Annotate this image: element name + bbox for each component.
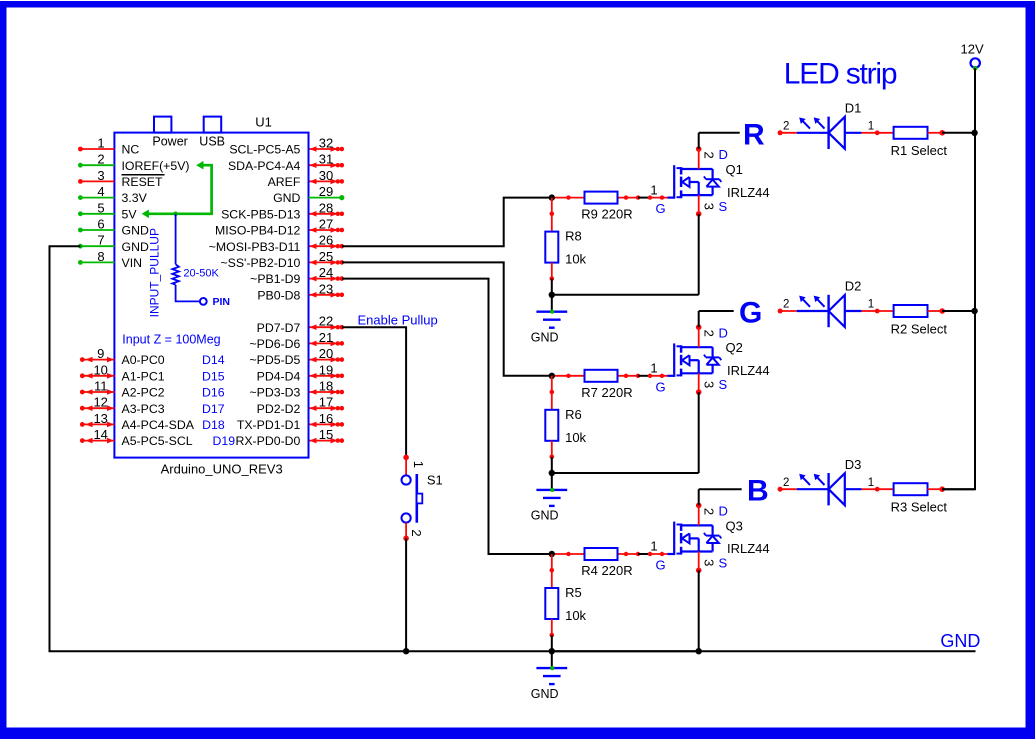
junction R4 R5 bbox=[549, 551, 555, 557]
transistor Q2 IRLZ44 bbox=[668, 375, 675, 377]
svg-text:1: 1 bbox=[868, 120, 874, 132]
svg-text:S: S bbox=[719, 377, 728, 392]
svg-text:1: 1 bbox=[868, 477, 874, 489]
svg-text:D15: D15 bbox=[202, 369, 225, 383]
ground GND1 bbox=[551, 295, 553, 312]
svg-text:3: 3 bbox=[97, 168, 104, 183]
svg-text:VIN: VIN bbox=[122, 256, 143, 270]
svg-text:R8: R8 bbox=[565, 229, 582, 244]
svg-text:Arduino_UNO_REV3: Arduino_UNO_REV3 bbox=[161, 461, 283, 476]
svg-text:23: 23 bbox=[319, 281, 333, 296]
svg-text:IRLZ44: IRLZ44 bbox=[727, 185, 770, 200]
svg-text:G: G bbox=[739, 297, 762, 330]
svg-text:Q3: Q3 bbox=[726, 518, 743, 533]
pin 27 MISO-PB4-D12 bbox=[310, 229, 338, 231]
svg-text:10k: 10k bbox=[565, 608, 586, 623]
svg-text:Q2: Q2 bbox=[726, 340, 743, 355]
svg-text:8: 8 bbox=[97, 249, 104, 264]
pin 17 PD2-D2 bbox=[310, 407, 338, 409]
U1 Power tab bbox=[154, 117, 171, 133]
pin 14 A5-PC5-SCL D19 bbox=[82, 440, 114, 442]
svg-text:D: D bbox=[719, 504, 728, 519]
svg-text:2: 2 bbox=[702, 508, 717, 515]
svg-text:NC: NC bbox=[122, 143, 140, 157]
pin 7 GND bbox=[80, 245, 114, 247]
svg-text:GND: GND bbox=[531, 509, 559, 523]
svg-text:5: 5 bbox=[97, 200, 104, 215]
svg-text:1: 1 bbox=[650, 361, 657, 376]
svg-text:A2-PC2: A2-PC2 bbox=[122, 386, 165, 400]
pin 18 ~PD3-D3 bbox=[310, 391, 338, 393]
transistor Q1 IRLZ44 bbox=[668, 197, 675, 199]
svg-text:GND: GND bbox=[273, 191, 300, 205]
pin 29 GND bbox=[309, 197, 342, 199]
svg-text:13: 13 bbox=[93, 411, 107, 426]
svg-text:26: 26 bbox=[319, 233, 333, 248]
svg-text:16: 16 bbox=[319, 411, 333, 426]
svg-text:R9 220R: R9 220R bbox=[581, 207, 632, 222]
svg-text:1: 1 bbox=[411, 461, 426, 468]
svg-text:24: 24 bbox=[319, 265, 333, 280]
svg-text:SCL-PC5-A5: SCL-PC5-A5 bbox=[229, 143, 300, 157]
svg-text:INPUT_PULLUP: INPUT_PULLUP bbox=[148, 228, 162, 317]
svg-text:MISO-PB4-D12: MISO-PB4-D12 bbox=[215, 224, 301, 238]
wire pin7 GND to left rail to bottom rail bbox=[50, 246, 976, 651]
svg-text:G: G bbox=[656, 201, 666, 216]
pin 28 SCK-PB5-D13 bbox=[310, 213, 338, 215]
pin 23 PB0-D8 bbox=[310, 294, 338, 296]
svg-text:19: 19 bbox=[319, 362, 333, 377]
svg-text:IRLZ44: IRLZ44 bbox=[727, 541, 770, 556]
svg-text:R: R bbox=[743, 118, 765, 151]
svg-text:D: D bbox=[719, 147, 728, 162]
pin 2 IOREF(+5V) bbox=[80, 164, 114, 166]
wire R9 row leads bbox=[552, 197, 585, 199]
svg-text:6: 6 bbox=[97, 217, 104, 232]
wire R4 row leads bbox=[552, 553, 585, 555]
svg-text:AREF: AREF bbox=[268, 175, 301, 189]
svg-text:Power: Power bbox=[152, 134, 187, 148]
svg-text:GND: GND bbox=[122, 240, 149, 254]
wire Q1 source down bbox=[698, 214, 700, 295]
svg-text:R5: R5 bbox=[565, 585, 582, 600]
resistor R1 Select bbox=[877, 132, 893, 134]
pin 20 ~PD5-D5 bbox=[310, 359, 338, 361]
pin 13 A4-PC4-SDA D18 bbox=[82, 423, 114, 425]
svg-text:SDA-PC4-A4: SDA-PC4-A4 bbox=[228, 159, 301, 173]
svg-text:12V: 12V bbox=[961, 41, 984, 56]
junction R7 R6 bbox=[549, 373, 555, 379]
LED D1 bbox=[778, 130, 783, 135]
wire R3 to 12V rail bbox=[942, 488, 974, 490]
junction R9 R8 bbox=[549, 194, 555, 200]
svg-text:PD2-D2: PD2-D2 bbox=[257, 402, 301, 416]
svg-text:10: 10 bbox=[93, 362, 107, 377]
svg-text:2: 2 bbox=[409, 529, 424, 536]
svg-text:LED strip: LED strip bbox=[784, 58, 897, 91]
svg-text:IOREF(+5V): IOREF(+5V) bbox=[122, 159, 190, 173]
svg-text:20: 20 bbox=[319, 346, 333, 361]
svg-text:10k: 10k bbox=[565, 430, 586, 445]
svg-text:A1-PC1: A1-PC1 bbox=[122, 369, 165, 383]
svg-text:11: 11 bbox=[94, 379, 108, 394]
svg-text:2: 2 bbox=[702, 330, 717, 337]
svg-text:S1: S1 bbox=[427, 473, 443, 488]
LED D3 bbox=[778, 487, 783, 492]
svg-text:SCK-PB5-D13: SCK-PB5-D13 bbox=[221, 207, 300, 221]
svg-text:9: 9 bbox=[97, 346, 104, 361]
svg-text:D1: D1 bbox=[845, 101, 862, 116]
svg-text:10k: 10k bbox=[565, 252, 586, 267]
svg-text:R7 220R: R7 220R bbox=[581, 385, 632, 400]
svg-text:G: G bbox=[656, 558, 666, 573]
svg-text:12: 12 bbox=[93, 395, 107, 410]
ground GND3 bbox=[551, 651, 553, 668]
pin 30 AREF bbox=[310, 180, 338, 182]
svg-text:D18: D18 bbox=[202, 418, 225, 432]
svg-text:D16: D16 bbox=[202, 386, 225, 400]
svg-text:D3: D3 bbox=[845, 457, 862, 472]
svg-text:31: 31 bbox=[319, 152, 333, 167]
wire Q1 source row to R8 junction bbox=[552, 294, 699, 296]
svg-text:R3 Select: R3 Select bbox=[891, 500, 948, 515]
svg-text:~MOSI-PB3-D11: ~MOSI-PB3-D11 bbox=[209, 240, 301, 254]
svg-text:PB0-D8: PB0-D8 bbox=[257, 288, 300, 302]
svg-text:GND: GND bbox=[122, 224, 149, 238]
svg-text:1: 1 bbox=[868, 299, 874, 311]
svg-text:21: 21 bbox=[319, 330, 333, 345]
resistor R5 10k bbox=[551, 554, 553, 588]
wire Q2 drain to G label bbox=[699, 310, 734, 312]
svg-text:A3-PC3: A3-PC3 bbox=[122, 402, 165, 416]
svg-text:Input Z = 100Meg: Input Z = 100Meg bbox=[122, 333, 220, 347]
svg-text:IRLZ44: IRLZ44 bbox=[727, 363, 770, 378]
pin 10 A1-PC1 D15 bbox=[82, 375, 114, 377]
pin 3 RESET bbox=[80, 180, 114, 182]
svg-text:17: 17 bbox=[319, 395, 333, 410]
svg-text:7: 7 bbox=[97, 233, 104, 248]
svg-text:RX-PD0-D0: RX-PD0-D0 bbox=[235, 434, 300, 448]
svg-text:2: 2 bbox=[783, 477, 789, 489]
junction R8 bottom bbox=[549, 292, 555, 298]
svg-text:2: 2 bbox=[783, 120, 789, 132]
svg-text:R6: R6 bbox=[565, 407, 582, 422]
wire Q2 source down bbox=[698, 392, 700, 473]
wire Q1 drain to R label bbox=[699, 132, 740, 134]
svg-text:32: 32 bbox=[319, 136, 333, 151]
resistor R4 bbox=[585, 548, 618, 560]
wire R7 row leads bbox=[552, 375, 585, 377]
svg-text:D19: D19 bbox=[213, 434, 236, 448]
green annotation arrow IOREF(+5V) to 5V bbox=[147, 165, 212, 214]
svg-text:A5-PC5-SCL: A5-PC5-SCL bbox=[122, 434, 193, 448]
pin 19 PD4-D4 bbox=[310, 375, 338, 377]
pin 21 ~PD6-D6 bbox=[310, 342, 338, 344]
wire pin25 D10 to R7 row bbox=[342, 262, 552, 375]
svg-text:20-50K: 20-50K bbox=[183, 268, 219, 280]
svg-text:~PD5-D5: ~PD5-D5 bbox=[249, 353, 300, 367]
svg-text:~SS'-PB2-D10: ~SS'-PB2-D10 bbox=[220, 256, 300, 270]
svg-text:GND: GND bbox=[940, 631, 980, 651]
svg-text:~PD6-D6: ~PD6-D6 bbox=[249, 337, 300, 351]
pin 31 SDA-PC4-A4 bbox=[310, 164, 338, 166]
svg-text:~PB1-D9: ~PB1-D9 bbox=[250, 272, 300, 286]
svg-text:30: 30 bbox=[319, 168, 333, 183]
svg-text:Enable Pullup: Enable Pullup bbox=[358, 313, 438, 328]
wire Q2 source row to R6 junction bbox=[552, 472, 699, 474]
svg-text:2: 2 bbox=[702, 151, 717, 158]
svg-text:A0-PC0: A0-PC0 bbox=[122, 353, 165, 367]
svg-text:R2 Select: R2 Select bbox=[891, 321, 948, 336]
svg-text:28: 28 bbox=[319, 200, 333, 215]
svg-text:USB: USB bbox=[199, 134, 225, 148]
resistor R7 bbox=[585, 370, 618, 382]
junction Q3 source rail bbox=[696, 648, 702, 654]
pin 4 3.3V bbox=[80, 197, 114, 199]
svg-text:15: 15 bbox=[319, 427, 333, 442]
resistor R8 10k bbox=[551, 198, 553, 232]
pin 12 A3-PC3 D17 bbox=[82, 407, 114, 409]
wire R1 to 12V rail bbox=[942, 132, 974, 134]
wire Q3 source down bbox=[698, 570, 700, 651]
svg-text:D17: D17 bbox=[202, 402, 225, 416]
junction R5 bottom bbox=[549, 648, 555, 654]
pin 15 RX-PD0-D0 bbox=[310, 440, 338, 442]
svg-text:27: 27 bbox=[319, 217, 333, 232]
junction R6 bottom bbox=[549, 470, 555, 476]
pin 25 ~SS'-PB2-D10 bbox=[310, 261, 338, 263]
svg-text:TX-PD1-D1: TX-PD1-D1 bbox=[237, 418, 301, 432]
svg-text:2: 2 bbox=[783, 299, 789, 311]
pin 9 A0-PC0 D14 bbox=[82, 359, 114, 361]
svg-text:22: 22 bbox=[319, 314, 333, 329]
op-amp U1 Arduino body bbox=[114, 133, 308, 458]
svg-text:S: S bbox=[719, 199, 728, 214]
svg-text:GND: GND bbox=[531, 331, 559, 345]
svg-text:~PD3-D3: ~PD3-D3 bbox=[249, 386, 300, 400]
border frame bbox=[0, 1, 1035, 8]
junction 12V D1 row bbox=[971, 130, 977, 136]
power 12V terminal bbox=[971, 58, 980, 67]
svg-text:3: 3 bbox=[702, 203, 717, 210]
wire 12V rail bbox=[942, 68, 975, 489]
wire R2 to 12V rail bbox=[942, 310, 974, 312]
transistor Q3 IRLZ44 bbox=[668, 553, 675, 555]
svg-text:PD7-D7: PD7-D7 bbox=[257, 321, 301, 335]
svg-text:3.3V: 3.3V bbox=[122, 191, 148, 205]
svg-text:1: 1 bbox=[650, 539, 657, 554]
resistor R9 bbox=[585, 192, 618, 204]
svg-text:3: 3 bbox=[702, 559, 717, 566]
wire pin24 D9 to R4 row bbox=[342, 279, 552, 554]
svg-text:PD4-D4: PD4-D4 bbox=[257, 369, 301, 383]
pin 11 A2-PC2 D16 bbox=[82, 391, 114, 393]
svg-text:D2: D2 bbox=[845, 279, 862, 294]
junction S1 rail bbox=[403, 648, 409, 654]
svg-text:4: 4 bbox=[97, 184, 104, 199]
resistor 20-50K internal pullup bbox=[175, 214, 177, 264]
pin 32 SCL-PC5-A5 bbox=[310, 148, 338, 150]
pin 22 PD7-D7 bbox=[310, 326, 338, 328]
pin 24 ~PB1-D9 bbox=[310, 278, 338, 280]
svg-text:B: B bbox=[747, 475, 769, 508]
svg-text:1: 1 bbox=[97, 136, 104, 151]
ground GND2 bbox=[551, 473, 553, 490]
pin 26 ~MOSI-PB3-D11 bbox=[310, 245, 338, 247]
switch S1 bbox=[403, 455, 409, 461]
pin 1 NC bbox=[80, 148, 114, 150]
svg-text:RESET: RESET bbox=[122, 175, 163, 189]
svg-text:1: 1 bbox=[650, 182, 657, 197]
svg-text:29: 29 bbox=[319, 184, 333, 199]
svg-text:D: D bbox=[719, 325, 728, 340]
junction 12V D2 row bbox=[971, 308, 977, 314]
svg-text:D14: D14 bbox=[202, 353, 225, 367]
wire pin22 D7 to switch S1 bbox=[342, 327, 406, 457]
svg-text:GND: GND bbox=[531, 687, 559, 701]
U1 USB tab bbox=[204, 117, 222, 133]
svg-text:U1: U1 bbox=[255, 115, 272, 130]
svg-text:A4-PC4-SDA: A4-PC4-SDA bbox=[122, 418, 195, 432]
svg-text:PIN: PIN bbox=[213, 296, 231, 308]
pin 5 5V bbox=[80, 213, 114, 215]
LED D2 bbox=[778, 309, 783, 314]
svg-text:14: 14 bbox=[93, 427, 107, 442]
wire S1 to bottom rail bbox=[405, 538, 407, 651]
svg-text:R4 220R: R4 220R bbox=[581, 563, 632, 578]
wire Q3 drain to B label bbox=[699, 488, 742, 490]
resistor R6 10k bbox=[551, 376, 553, 410]
svg-text:25: 25 bbox=[319, 249, 333, 264]
svg-text:R1 Select: R1 Select bbox=[891, 143, 948, 158]
pin 16 TX-PD1-D1 bbox=[310, 423, 338, 425]
svg-text:G: G bbox=[656, 379, 666, 394]
svg-text:Q1: Q1 bbox=[726, 162, 743, 177]
svg-text:3: 3 bbox=[702, 381, 717, 388]
svg-text:5V: 5V bbox=[122, 207, 138, 221]
svg-text:2: 2 bbox=[97, 152, 104, 167]
svg-text:S: S bbox=[719, 555, 728, 570]
wire Q3 source row to R5 junction bbox=[552, 650, 699, 652]
wire pin26 D11 to R9 row bbox=[342, 198, 552, 247]
resistor R3 Select bbox=[877, 488, 893, 490]
pin 8 VIN bbox=[80, 261, 114, 263]
svg-text:18: 18 bbox=[319, 379, 333, 394]
pin 6 GND bbox=[80, 229, 114, 231]
resistor R2 Select bbox=[877, 310, 893, 312]
